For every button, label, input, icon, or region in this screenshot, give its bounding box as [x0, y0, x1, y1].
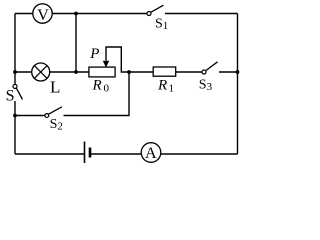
wire R1 to S3 [176, 71, 203, 73]
switch S3 circle [202, 70, 206, 74]
junction dot left lamp row [13, 70, 17, 74]
svg-text:V: V [37, 7, 49, 24]
junction dot lamp row / vertical [74, 70, 78, 74]
battery long plate [84, 142, 86, 164]
wire left edge upper (corner to switch S) [14, 14, 16, 85]
ammeter U-A circle [141, 143, 161, 163]
wire bottom (left corner to battery) [15, 153, 84, 155]
wire left edge lower (switch S to bottom corner) [14, 101, 16, 154]
wire S3 to right edge [219, 71, 238, 73]
wire lamp row (left edge to R0, lamp covers part) [15, 71, 89, 73]
junction dot top [74, 12, 78, 16]
lamp L cross [34, 66, 47, 79]
lamp L circle [32, 63, 50, 81]
svg-text:S: S [6, 88, 15, 105]
potentiometer wiper arrowhead [103, 61, 109, 68]
wire vertical from top junction to lamp row [75, 14, 77, 73]
wire top (S1 to right corner) [165, 13, 238, 15]
svg-text:0: 0 [104, 83, 110, 95]
switch S2 blade [49, 107, 63, 114]
battery short plate [89, 148, 92, 158]
wire right edge [237, 14, 239, 155]
svg-text:1: 1 [169, 83, 175, 95]
svg-text:A: A [145, 145, 157, 162]
potentiometer R0 box [89, 67, 115, 77]
switch S1 circle [147, 12, 151, 16]
switch S blade [16, 88, 22, 99]
wire S2 branch vertical and row [64, 72, 130, 116]
svg-text:P: P [89, 46, 99, 62]
switch S circle [13, 84, 17, 88]
junction dot R0-R1 row / S2 branch [127, 70, 131, 74]
svg-text:R: R [157, 78, 167, 94]
svg-text:L: L [50, 78, 60, 97]
wire bottom (battery to right corner, ammeter covers part) [91, 153, 238, 155]
switch S1 blade [151, 5, 164, 12]
switch S3 blade [206, 62, 218, 71]
junction dot right edge row2 [236, 70, 240, 74]
wire top (left corner to S1) [15, 13, 147, 15]
resistor R1 box [153, 67, 176, 76]
switch S2 circle [45, 114, 49, 118]
voltmeter U-V circle [33, 4, 52, 23]
svg-text:R: R [92, 78, 102, 94]
wire wiper loop and row to R1 [106, 47, 154, 72]
wire S2 row left segment [15, 115, 45, 117]
junction dot left edge S2 row [13, 114, 17, 118]
